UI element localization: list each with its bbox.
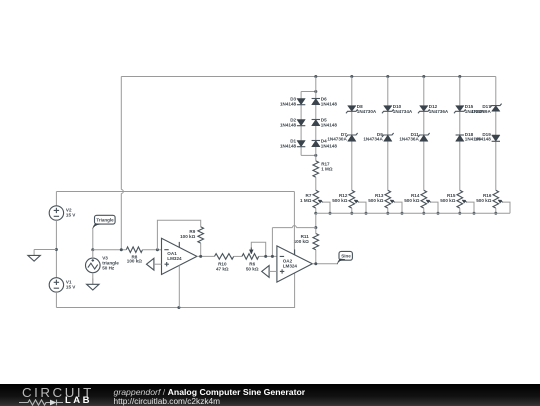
potentiometer R12 wiper arrow xyxy=(354,200,359,203)
wire V2 minus to V1 plus xyxy=(55,220,57,278)
junction branch top at main column xyxy=(314,90,317,93)
wire branch join to R17 xyxy=(315,155,317,161)
wire R17 to R7 xyxy=(315,177,317,190)
label D9 1N4734A xyxy=(363,132,383,142)
wire R11 node to OA2 inverting branch (hops over +15V wire) xyxy=(272,227,315,229)
potentiometer R16 wiper arrow xyxy=(498,200,503,203)
wire V3 top stem xyxy=(92,250,94,258)
wire R14 wiper to bus xyxy=(431,202,438,213)
label D3 1N4148 xyxy=(280,97,297,107)
label D18 1N4148 xyxy=(465,132,482,142)
wire OA1 output xyxy=(197,255,215,257)
wire OA1 V- pin to -15V rail xyxy=(178,265,180,307)
junction bus at R13 wiper xyxy=(401,212,404,215)
CircuitLab logo CIRCUIT text xyxy=(22,384,94,399)
diode D4 xyxy=(312,141,320,147)
ground symbol at OA1 non-inverting input xyxy=(147,258,154,270)
footer bar xyxy=(0,384,540,406)
wire V1 minus to -15V rail xyxy=(55,292,57,307)
potentiometer R16 xyxy=(493,190,499,208)
wire R7 column down to R11 node xyxy=(315,213,317,227)
wire R11 top stub xyxy=(315,228,317,234)
junction R6 wiper tap xyxy=(264,255,267,258)
wire R7 bottom to bus xyxy=(315,208,317,213)
wire +15V from V2 to OA2 V+ (top run) xyxy=(56,191,294,193)
wire column x=387.8 top rail to upper diode xyxy=(387,77,389,106)
label R17 1 MΩ xyxy=(321,162,333,172)
label OA1 LM324 xyxy=(167,251,182,261)
svg-text:47 kΩ: 47 kΩ xyxy=(216,266,229,271)
junction R11 top node xyxy=(314,226,317,229)
diode D3 xyxy=(297,99,305,105)
label V3 triangle 50 Hz xyxy=(102,256,119,271)
potentiometer R7 xyxy=(313,190,319,208)
wire vertical from top rail to triangle node (hops over +15V wire) xyxy=(120,77,122,250)
potentiometer R14 wiper arrow xyxy=(426,200,431,203)
wire main column through D6 D5 D4 xyxy=(315,77,317,156)
junction V3 top node xyxy=(91,248,94,251)
label D5 1N4148 xyxy=(321,118,338,128)
svg-text:Sine: Sine xyxy=(341,254,351,259)
net flag Sine xyxy=(337,251,352,264)
junction bus at R12 wiper xyxy=(365,212,368,215)
label D2 1N4148 xyxy=(280,118,297,128)
diode D6 xyxy=(312,99,320,105)
footer title text xyxy=(114,386,306,396)
junction bus at R13 bottom xyxy=(386,212,389,215)
diode D2 xyxy=(297,120,305,126)
potentiometer R14 xyxy=(421,190,427,208)
wire column x=459.8 between diode rows xyxy=(459,111,461,135)
potentiometer R7 wiper arrow xyxy=(318,200,323,203)
zener diode D17 xyxy=(490,104,502,112)
wire -15V rail to OA2 V- pin xyxy=(56,273,294,308)
wire OA1 + input stub xyxy=(154,263,162,265)
wire R12 wiper to bus xyxy=(359,202,366,213)
wire down to OA2 inverting input node xyxy=(271,228,273,257)
junction OA2 inverting node xyxy=(271,255,274,258)
wire top rail net xyxy=(121,76,496,78)
svg-text:500 kΩ: 500 kΩ xyxy=(332,198,347,203)
wire R16 bottom to bus xyxy=(495,208,497,213)
diode D11 xyxy=(418,133,430,141)
wire R8 to OA1 inverting input xyxy=(143,249,162,251)
svg-text:1N4148: 1N4148 xyxy=(280,144,297,149)
diode D18 xyxy=(456,135,464,141)
svg-text:1N4148: 1N4148 xyxy=(475,137,492,142)
svg-text:15 V: 15 V xyxy=(66,284,76,289)
wire column x=351.8 lower diode to potentiometer xyxy=(351,141,353,190)
wire R15 bottom to bus xyxy=(459,208,461,213)
svg-text:100 kΩ: 100 kΩ xyxy=(127,259,142,264)
wire V3 node to R8 input xyxy=(93,249,127,251)
junction bus at R7 wiper xyxy=(329,212,332,215)
wire R7 wiper to bus xyxy=(323,202,330,213)
svg-text:1N4736A: 1N4736A xyxy=(429,109,449,114)
label R16 500 k&#937; xyxy=(476,193,492,203)
svg-text:50 kΩ: 50 kΩ xyxy=(246,266,259,271)
wire column x=423.8 lower diode to potentiometer xyxy=(423,141,425,190)
zener diode D8 xyxy=(346,106,358,114)
wire +15V down to OA2 V+ pin xyxy=(293,192,295,256)
source V3 triangle wave xyxy=(86,258,101,273)
svg-text:1N4739A: 1N4739A xyxy=(471,109,491,114)
wire OA1 feedback up and over xyxy=(157,220,200,250)
op-amp OA1 xyxy=(162,238,197,274)
wire V3 bottom stem xyxy=(92,273,94,285)
wire hop at (294.4,227.6) xyxy=(292,226,296,228)
svg-text:1N4148: 1N4148 xyxy=(321,123,338,128)
wire V2 top to +15V corner xyxy=(55,192,57,206)
svg-text:1N4734A: 1N4734A xyxy=(363,137,383,142)
label D1 1N4148 xyxy=(280,139,297,149)
wire R6 wiper loop xyxy=(251,242,265,256)
CircuitLab logo LAB text xyxy=(65,395,92,406)
junction bus at R7 bottom xyxy=(314,212,317,215)
wire column x=351.8 between diode rows xyxy=(351,111,353,135)
svg-text:100 kΩ: 100 kΩ xyxy=(294,239,309,244)
label R14 500 k&#937; xyxy=(404,193,420,203)
junction OA1 V- pin on -15V rail xyxy=(177,306,180,309)
wire OA2 output to Sine xyxy=(312,263,337,265)
svg-text:1 MΩ: 1 MΩ xyxy=(321,167,333,172)
junction bus at R14 wiper xyxy=(437,212,440,215)
resistor R9 xyxy=(198,227,204,243)
net flag Triangle xyxy=(93,215,116,229)
label D8 1N4730A xyxy=(357,104,377,114)
svg-text:1N4148: 1N4148 xyxy=(321,144,338,149)
zener diode D15 xyxy=(454,106,466,114)
potentiometer R13 wiper arrow xyxy=(390,200,395,203)
wire left branch column segments xyxy=(300,92,302,156)
svg-text:Triangle: Triangle xyxy=(96,218,114,223)
label R7 1 M&#937; xyxy=(300,193,312,203)
footer url text xyxy=(114,396,221,406)
junction bus at R15 wiper xyxy=(473,212,476,215)
wire R10 to R6 xyxy=(234,255,242,257)
svg-text:100 kΩ: 100 kΩ xyxy=(180,234,195,239)
junction top-rail feed at input wire xyxy=(120,248,123,251)
wire branch bottom join xyxy=(301,154,316,156)
potentiometer R13 xyxy=(385,190,391,208)
potentiometer R15 xyxy=(457,190,463,208)
svg-text:1N4148: 1N4148 xyxy=(280,123,297,128)
wire column x=387.8 between diode rows xyxy=(387,111,389,135)
op-amp OA2 xyxy=(277,246,312,282)
svg-text:LM324: LM324 xyxy=(283,263,298,268)
junction bus at R14 bottom xyxy=(422,212,425,215)
wire column x=495.8 between diode rows xyxy=(495,111,497,135)
label R10 47 kΩ xyxy=(216,262,229,272)
logo resistor and diode glyph xyxy=(19,399,63,405)
wire R9 to OA1 output xyxy=(200,243,202,256)
svg-text:500 kΩ: 500 kΩ xyxy=(404,198,419,203)
potentiometer R6 xyxy=(242,254,259,260)
label R13 500 k&#937; xyxy=(368,193,384,203)
wire hop at (121,191.5) xyxy=(121,190,123,194)
zener diode D10 xyxy=(382,106,394,114)
label R11 100 kΩ xyxy=(294,234,310,244)
junction bus at R16 bottom xyxy=(494,212,497,215)
diode D5 xyxy=(312,120,320,126)
wire R6 to OA2 inverting input xyxy=(259,255,277,257)
label R15 500 k&#937; xyxy=(440,193,456,203)
label V2 15 V xyxy=(66,208,76,218)
wire column x=459.8 top rail to upper diode xyxy=(459,77,461,106)
label R9 100 kΩ xyxy=(180,229,196,239)
ground symbol at OA2 non-inverting input xyxy=(262,266,269,278)
wire Triangle flag stub xyxy=(92,228,94,249)
label D7 1N4730A xyxy=(327,132,347,142)
junction bus at R15 bottom xyxy=(458,212,461,215)
junction top rail x=387.8 xyxy=(386,75,389,78)
svg-text:15 V: 15 V xyxy=(66,212,76,217)
wire summing bus xyxy=(316,212,510,214)
zener diode D12 xyxy=(418,106,430,114)
wire column x=387.8 lower diode to potentiometer xyxy=(387,141,389,190)
svg-text:500 kΩ: 500 kΩ xyxy=(368,198,383,203)
svg-text:500 kΩ: 500 kΩ xyxy=(476,198,491,203)
voltage source V2 xyxy=(49,206,63,220)
junction top rail x=315.8 xyxy=(314,75,317,78)
voltage source V1 xyxy=(49,278,63,292)
label D4 1N4148 xyxy=(321,139,338,149)
junction OA1 output feedback node xyxy=(199,255,202,258)
resistor R10 xyxy=(215,254,234,260)
wire R15 wiper to bus xyxy=(467,202,474,213)
wire R16 wiper to bus xyxy=(503,202,510,213)
label R6 50 kΩ xyxy=(246,262,259,272)
svg-text:1N4730A: 1N4730A xyxy=(327,137,347,142)
wire column x=495.8 lower diode to potentiometer xyxy=(495,141,497,190)
label D17 1N4739A xyxy=(471,104,491,114)
potentiometer R15 wiper arrow xyxy=(462,200,467,203)
label V1 15 V xyxy=(66,279,76,289)
wire ground tap xyxy=(34,249,56,251)
diode D9 xyxy=(382,133,394,141)
label R8 100 kΩ xyxy=(127,254,142,263)
label R12 500 k&#937; xyxy=(332,193,348,203)
junction top rail x=423.8 xyxy=(422,75,425,78)
label D15 1N4738A xyxy=(465,104,485,114)
wire column x=423.8 between diode rows xyxy=(423,111,425,135)
junction branch bottom at main column xyxy=(314,154,317,157)
junction OA1 feedback at inverting input xyxy=(156,248,159,251)
wire branch top split xyxy=(301,91,316,93)
label D6 1N4148 xyxy=(321,97,338,107)
ground symbol at supply midpoint xyxy=(28,250,40,262)
svg-text:1N4734A: 1N4734A xyxy=(393,109,413,114)
wire column x=423.8 top rail to upper diode xyxy=(423,77,425,106)
diode D7 xyxy=(346,133,358,141)
junction top rail x=459.8 xyxy=(458,75,461,78)
label D11 1N4736A xyxy=(399,132,419,142)
svg-text:1N4148: 1N4148 xyxy=(321,102,338,107)
junction ground tap on supply rail xyxy=(55,248,58,251)
wire column x=351.8 top rail to upper diode xyxy=(351,77,353,106)
wire OA2 + input stub xyxy=(269,270,277,272)
svg-text:50 Hz: 50 Hz xyxy=(102,265,115,270)
ground symbol below V3 xyxy=(87,278,99,290)
label D19 1N4148 xyxy=(475,132,492,142)
svg-text:500 kΩ: 500 kΩ xyxy=(440,198,455,203)
wire top rail right end down to D17 column xyxy=(495,77,497,106)
wire column x=459.8 lower diode to potentiometer xyxy=(459,141,461,190)
wire R12 bottom to bus xyxy=(351,208,353,213)
junction R11 bottom at OA2 output xyxy=(314,262,317,265)
svg-text:LM324: LM324 xyxy=(167,256,182,261)
label D12 1N4736A xyxy=(429,104,449,114)
resistor R11 xyxy=(313,234,319,250)
diode D19 xyxy=(492,135,500,141)
svg-text:1N4736A: 1N4736A xyxy=(399,137,419,142)
svg-text:1 MΩ: 1 MΩ xyxy=(300,198,312,203)
junction bus at R12 bottom xyxy=(350,212,353,215)
label D10 1N4734A xyxy=(393,104,413,114)
potentiometer R6 wiper arrow xyxy=(249,248,253,255)
resistor R8 xyxy=(126,247,142,253)
svg-text:1N4148: 1N4148 xyxy=(280,102,297,107)
wire R11 bottom to OA2 output xyxy=(315,250,317,264)
diode D1 xyxy=(297,141,305,147)
svg-text:1N4730A: 1N4730A xyxy=(357,109,377,114)
resistor R17 xyxy=(313,161,319,177)
wire R14 bottom to bus xyxy=(423,208,425,213)
wire R13 wiper to bus xyxy=(395,202,402,213)
label OA2 LM324 xyxy=(283,258,298,268)
potentiometer R12 xyxy=(349,190,355,208)
wire R13 bottom to bus xyxy=(387,208,389,213)
junction top rail x=351.8 xyxy=(350,75,353,78)
